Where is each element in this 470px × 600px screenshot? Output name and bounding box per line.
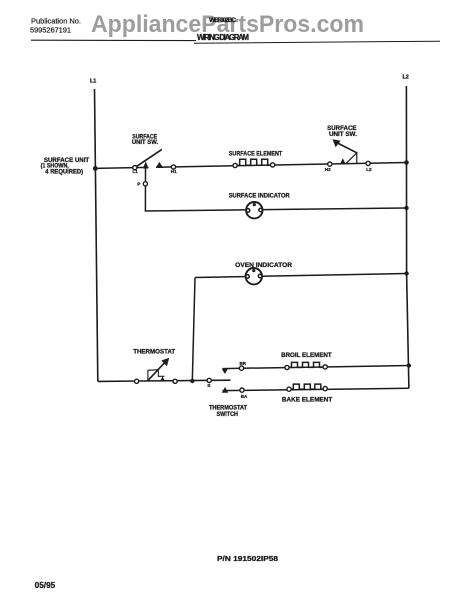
wire bake line	[223, 388, 409, 390]
svg-text:05/95: 05/95	[35, 581, 56, 590]
switch S1 contact arrow P	[143, 161, 149, 168]
svg-text:UNIT SW.: UNIT SW.	[329, 131, 357, 138]
thermostat switch contact broil (down triangle)	[222, 369, 228, 374]
switch S2 contact triangle	[340, 158, 346, 164]
header rule right segment (underline of title)	[194, 41, 440, 43]
svg-text:OVEN INDICATOR: OVEN INDICATOR	[235, 262, 292, 269]
svg-text:WEF302BC: WEF302BC	[209, 17, 236, 24]
svg-text:4 REQUIRED): 4 REQUIRED)	[45, 169, 83, 175]
wire bottom line	[98, 380, 231, 381]
terminal bake element right	[323, 387, 327, 391]
header rule left segment	[31, 39, 196, 41]
terminal BA	[240, 388, 244, 392]
thermostat contact triangle	[160, 377, 165, 382]
svg-text:L1: L1	[132, 169, 138, 174]
terminal surface element left	[233, 163, 237, 167]
lamp oven indicator	[246, 268, 262, 284]
thermostat blade with arrow	[148, 363, 165, 381]
svg-text:H2: H2	[325, 167, 331, 172]
thermostat switch contact bake (up triangle)	[222, 387, 228, 393]
wire oven drop vertical	[192, 278, 195, 382]
svg-text:P: P	[137, 182, 140, 187]
resistor broil element	[289, 362, 322, 367]
terminal H2 of S2	[328, 162, 332, 166]
junction oven line at L2	[404, 271, 408, 275]
svg-text:L1: L1	[90, 79, 96, 85]
switch S2 triangle outline	[346, 153, 357, 164]
junction broil at L2	[407, 363, 411, 367]
switch S1 contact triangle H1	[156, 162, 163, 168]
wire broil line	[223, 366, 409, 369]
terminal BR	[239, 366, 243, 370]
wire oven indicator line	[195, 274, 407, 278]
terminal L2 of S2	[366, 161, 370, 165]
svg-text:BAKE ELEMENT: BAKE ELEMENT	[282, 396, 332, 403]
svg-text:Publication No.: Publication No.	[31, 17, 81, 26]
terminal thermostat left	[135, 379, 139, 383]
junction surface indicator line at L2	[404, 206, 408, 210]
svg-text:SURFACE ELEMENT: SURFACE ELEMENT	[229, 150, 282, 157]
svg-text:SWITCH: SWITCH	[217, 411, 239, 418]
junction main line at L1	[93, 166, 98, 171]
terminal L1 of S1	[133, 166, 137, 170]
thermostat bimetal outline	[148, 370, 158, 381]
terminal broil element right	[323, 365, 327, 369]
terminal thermostat right	[173, 379, 177, 383]
lamp surface indicator	[246, 202, 262, 218]
terminal S of thermostat switch	[207, 378, 211, 382]
terminal H1 of S1	[171, 165, 175, 169]
svg-text:BROIL ELEMENT: BROIL ELEMENT	[281, 352, 332, 359]
svg-text:THERMOSTAT: THERMOSTAT	[133, 349, 176, 356]
thermostat contact step	[158, 370, 164, 376]
svg-text:SURFACE INDICATOR: SURFACE INDICATOR	[229, 193, 290, 200]
svg-text:5995267191: 5995267191	[30, 26, 71, 35]
switch S2 blade with arrow	[337, 143, 357, 153]
terminal surface element right	[271, 163, 275, 167]
junction main line at L2	[404, 160, 409, 165]
svg-text:BR: BR	[240, 361, 247, 366]
svg-text:BA: BA	[241, 394, 248, 399]
svg-text:WIRING DIAGRAM: WIRING DIAGRAM	[197, 33, 249, 42]
wire L1 bus vertical	[95, 89, 98, 381]
terminal bake element left	[287, 387, 291, 391]
terminal broil element left	[285, 365, 289, 369]
wire L2 bus vertical	[406, 86, 409, 388]
svg-text:H1: H1	[171, 169, 177, 174]
switch S1 blade	[135, 149, 162, 167]
svg-text:P/N 191502IP58: P/N 191502IP58	[217, 554, 278, 563]
resistor bake element	[291, 384, 323, 389]
wire main surface line	[95, 167, 148, 168]
svg-text:L2: L2	[366, 167, 372, 172]
terminal P of S1	[143, 182, 147, 186]
svg-text:UNIT SW.: UNIT SW.	[132, 140, 159, 146]
svg-text:L2: L2	[403, 74, 409, 80]
junction bottom line at oven drop	[190, 379, 194, 383]
wire P drop	[145, 168, 406, 211]
resistor surface element	[237, 159, 270, 165]
